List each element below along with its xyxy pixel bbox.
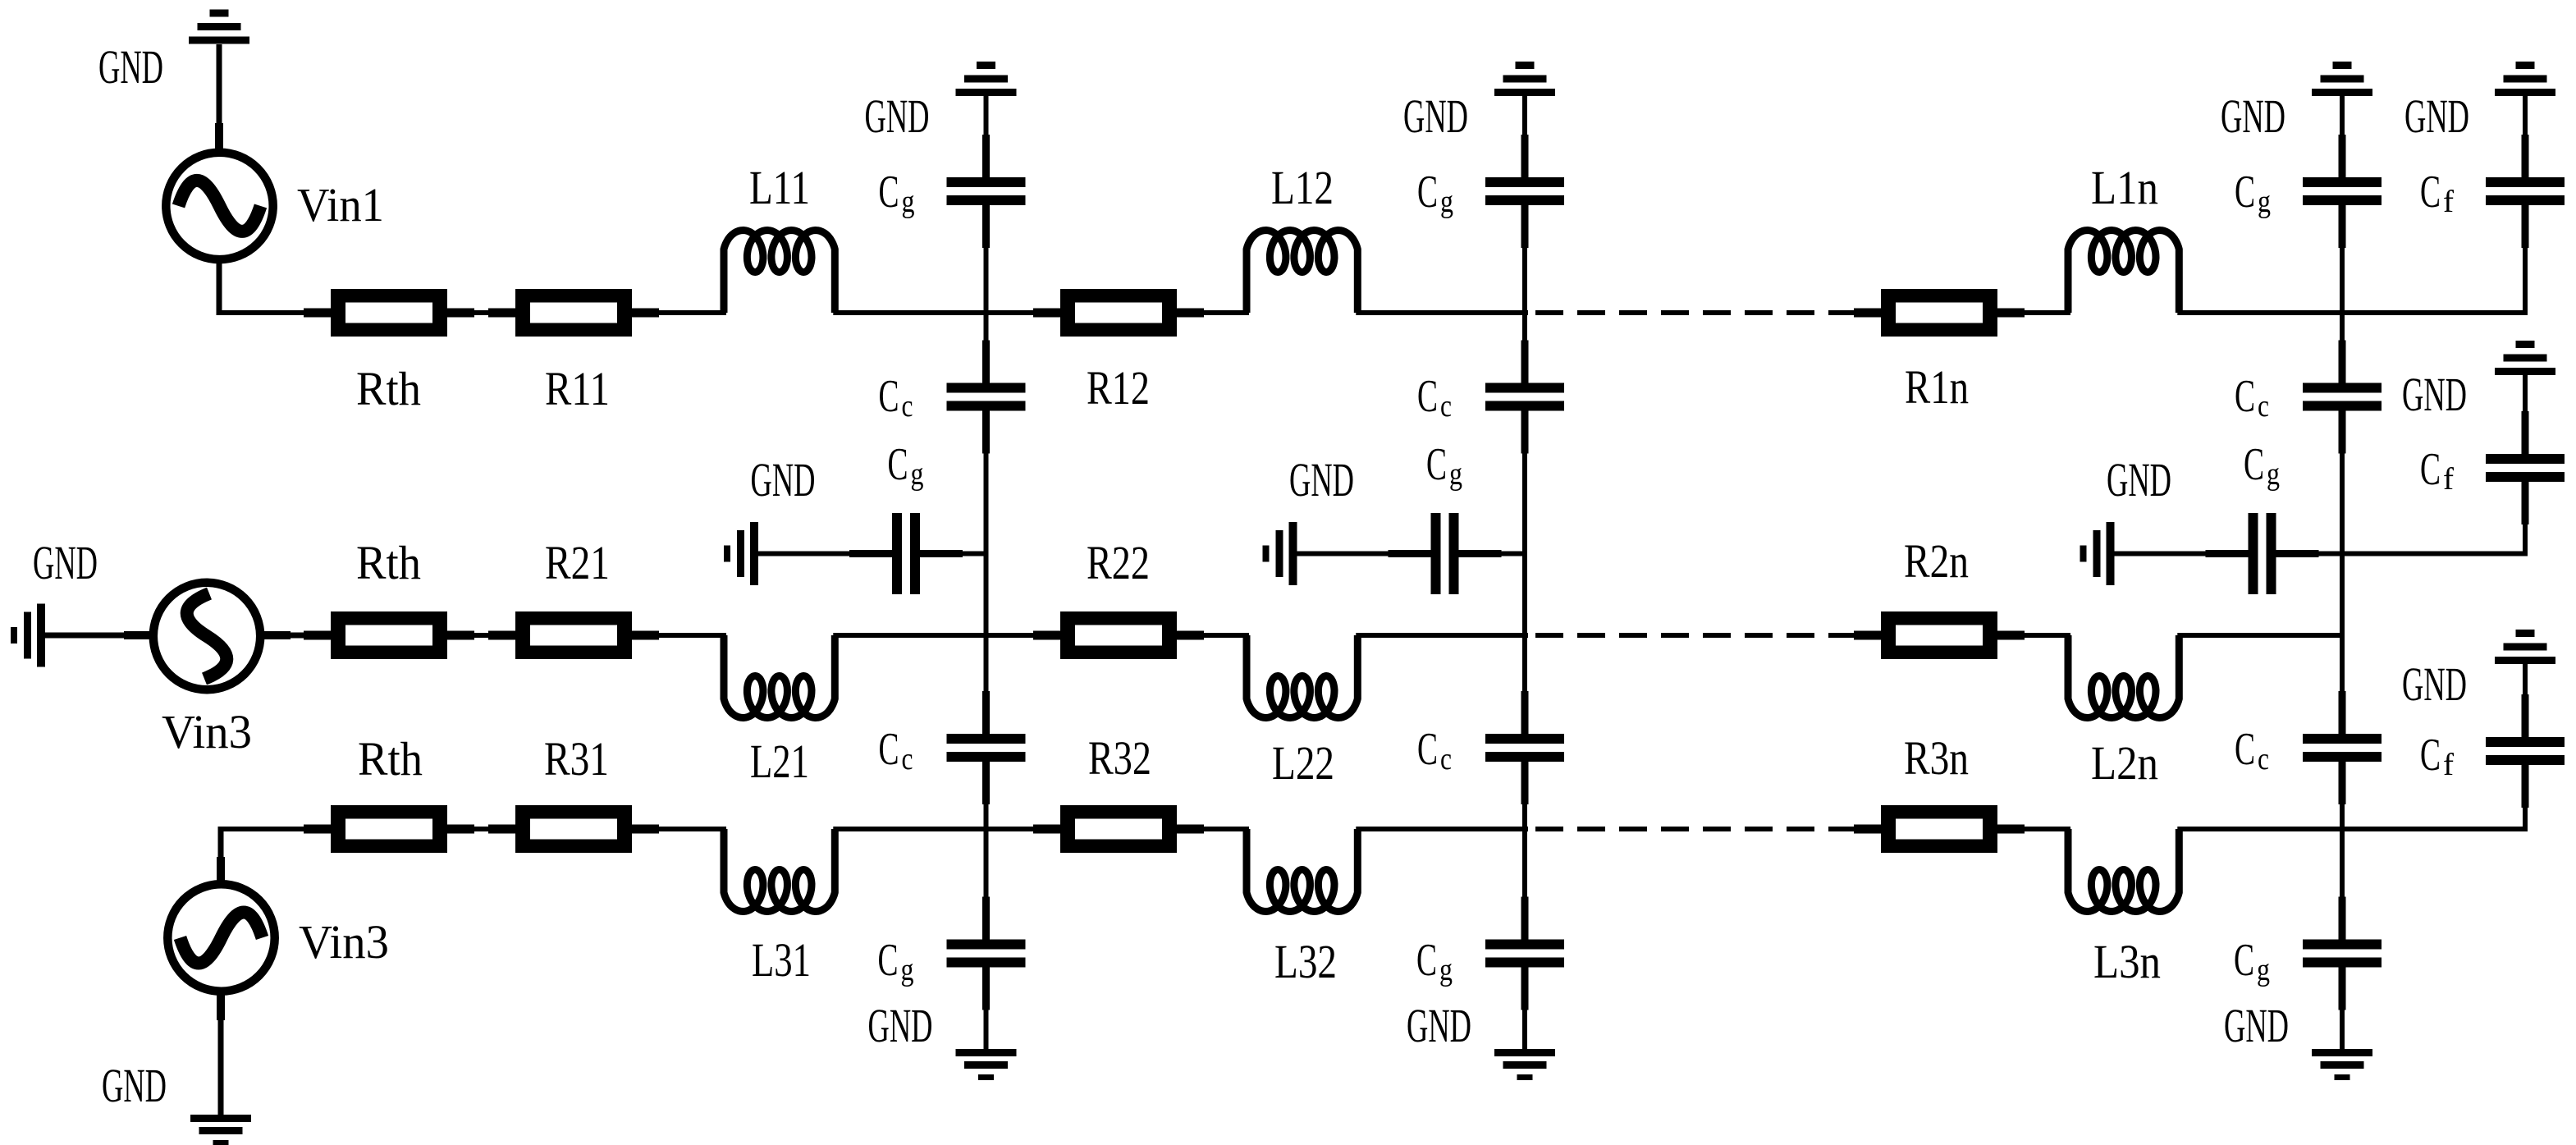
svg-text:g: g	[2258, 185, 2271, 219]
wire col1 branch to column	[920, 552, 986, 556]
svg-text:Vin3: Vin3	[299, 915, 389, 969]
wire col1 Cc lower to row3	[984, 762, 989, 829]
label R1n	[1905, 360, 1969, 414]
svg-text:L22: L22	[1272, 736, 1334, 790]
svg-text:R11: R11	[545, 362, 610, 415]
svg-text:Rth: Rth	[358, 732, 423, 785]
ground GND col2 bottom	[1494, 1049, 1555, 1080]
svg-text:L32: L32	[1274, 935, 1337, 988]
label Cf colD top	[2420, 167, 2454, 219]
resistor R1n	[1854, 289, 2025, 337]
wire col2 row3 to Cg bottom	[1522, 829, 1527, 940]
svg-text:L21: L21	[750, 735, 809, 788]
svg-text:C: C	[879, 167, 899, 218]
label Cg col1 top	[879, 167, 915, 219]
label Cg coln bottom	[2234, 935, 2270, 987]
ground GND col1 branch	[724, 522, 758, 585]
label Cc coln lower	[2235, 724, 2269, 776]
svg-text:GND: GND	[33, 536, 98, 589]
ground GND colD middle	[2495, 341, 2555, 375]
svg-text:R12: R12	[1087, 361, 1150, 414]
wire colD Cf top to row1	[2523, 248, 2528, 313]
wire row2 L2n to colC	[2177, 633, 2345, 638]
wire col1 top stem	[982, 96, 990, 179]
wire colD lower stem	[2522, 663, 2529, 739]
ground GND row2 far-left	[11, 604, 45, 667]
ground GND colD top	[2495, 62, 2555, 96]
resistor Rth row3	[304, 805, 474, 853]
svg-text:f: f	[2443, 748, 2454, 782]
resistor R32	[1033, 805, 1204, 853]
wire col1 row1 to Cc	[984, 313, 989, 383]
label R32	[1088, 731, 1151, 785]
svg-text:R22: R22	[1087, 536, 1150, 589]
svg-text:g: g	[1440, 185, 1453, 219]
label GND row2 far-left	[33, 536, 98, 589]
capacitor Cg col2 branch	[1389, 513, 1502, 594]
ground GND col1 bottom	[956, 1049, 1017, 1080]
label R11	[545, 362, 610, 415]
svg-text:GND: GND	[868, 999, 933, 1052]
label L1n	[2091, 161, 2158, 214]
wire coln row3 to Cg bottom	[2340, 829, 2345, 940]
capacitor Cg col1 top	[947, 135, 1026, 248]
wire row3 Rth to R31	[474, 827, 491, 831]
wire row1 R12 to L12	[1204, 310, 1249, 315]
capacitor Cg col2 bottom	[1485, 897, 1564, 1010]
label R31	[544, 732, 609, 785]
resistor Rth row1	[304, 289, 474, 337]
wire row3 R32 to L32	[1204, 827, 1249, 831]
capacitor Cc col2 upper	[1485, 341, 1564, 454]
capacitor Cc col1 upper	[947, 341, 1026, 454]
label GND col2 branch	[1289, 453, 1354, 506]
label GND col1 branch	[751, 453, 816, 506]
label Cg col1 bottom	[878, 935, 914, 987]
wire row2 L21 to R22	[833, 633, 1036, 638]
ground GND top-left	[189, 10, 249, 44]
label Cc col2 upper	[1417, 371, 1452, 424]
svg-text:c: c	[2258, 742, 2269, 776]
capacitor Cg col1 branch	[849, 513, 963, 594]
label GND col1 top	[865, 89, 930, 143]
capacitor Cg coln branch	[2206, 513, 2319, 594]
svg-text:R31: R31	[544, 732, 609, 785]
svg-text:g: g	[1449, 457, 1462, 492]
svg-text:Vin1: Vin1	[297, 178, 384, 231]
svg-text:C: C	[1417, 371, 1438, 422]
wire row3 corner down to Vin3	[217, 827, 225, 882]
capacitor Cf colD lower	[2486, 694, 2565, 808]
wire row2 R21 to L21	[659, 633, 726, 638]
svg-text:R32: R32	[1088, 731, 1151, 785]
wire colD middle stem	[2522, 374, 2529, 456]
svg-text:GND: GND	[751, 453, 816, 506]
label GND coln top	[2221, 89, 2285, 143]
svg-text:f: f	[2443, 462, 2454, 497]
label L22	[1272, 736, 1334, 790]
wire row3 L31 to R32	[833, 827, 1036, 831]
svg-text:c: c	[902, 742, 913, 776]
svg-text:GND: GND	[2224, 999, 2289, 1052]
label L32	[1274, 935, 1337, 988]
label GND col2 bottom	[1407, 999, 1471, 1052]
label Cg col2 top	[1417, 167, 1453, 219]
wire row1 dashed segment	[1535, 310, 1850, 315]
svg-text:Rth: Rth	[356, 536, 421, 589]
label Rth row2	[356, 536, 421, 589]
wire col1 Cc to row2	[984, 410, 989, 635]
wire col2 row1 to Cc	[1522, 313, 1527, 383]
wire row1 dash to R1n	[1850, 310, 1856, 315]
inductor L2n	[2068, 635, 2179, 718]
wire row2 Vin3 to Rth	[261, 631, 306, 639]
label R12	[1087, 361, 1150, 414]
wire row2 dash to R2n	[1850, 633, 1856, 638]
wire col1 branch	[758, 552, 892, 556]
label Cf colD middle	[2420, 444, 2454, 497]
voltage source Vin3 middle	[153, 583, 260, 689]
svg-text:R1n: R1n	[1905, 360, 1969, 414]
capacitor Cc col2 lower	[1485, 691, 1564, 804]
inductor L22	[1247, 635, 1357, 718]
wire row2 GND to Vin3	[45, 631, 152, 639]
svg-text:g: g	[2267, 457, 2280, 492]
label Cc col1 upper	[879, 371, 913, 424]
capacitor Cf colD middle	[2486, 411, 2565, 524]
svg-text:C: C	[1426, 439, 1447, 490]
svg-text:R21: R21	[545, 536, 610, 589]
svg-text:c: c	[1440, 742, 1452, 776]
ground GND coln top	[2312, 62, 2372, 96]
label GND col2 top	[1403, 89, 1468, 143]
wire col2 Cg bottom to ground	[1522, 967, 1527, 1051]
capacitor Cg col1 bottom	[947, 897, 1026, 1010]
wire col2 Cc lower to row3	[1522, 762, 1527, 829]
wire coln top stem	[2339, 96, 2346, 179]
svg-text:C: C	[2235, 167, 2255, 218]
label Vin1	[297, 178, 384, 231]
resistor R31	[488, 805, 659, 853]
ground GND bottom-left	[190, 1115, 251, 1145]
label R21	[545, 536, 610, 589]
svg-text:C: C	[879, 724, 899, 775]
svg-text:g: g	[911, 457, 924, 492]
svg-text:GND: GND	[2221, 89, 2285, 143]
capacitor Cg col2 top	[1485, 135, 1564, 248]
wire colD Cf middle to branch	[2523, 524, 2528, 554]
svg-text:C: C	[2234, 935, 2254, 986]
svg-text:C: C	[1416, 935, 1437, 986]
wire col2 Cc to row2	[1522, 410, 1527, 635]
resistor R22	[1033, 611, 1204, 659]
resistor R3n	[1854, 805, 2025, 853]
label Cc coln upper	[2235, 371, 2269, 424]
label L11	[749, 161, 810, 214]
svg-text:C: C	[2420, 444, 2441, 495]
wire col1 Cg bottom to ground	[984, 967, 989, 1051]
label L3n	[2093, 935, 2161, 988]
svg-text:g: g	[2257, 953, 2270, 987]
label GND coln branch	[2107, 453, 2171, 506]
svg-text:C: C	[878, 935, 899, 986]
wire coln branch	[2115, 552, 2249, 556]
svg-text:L11: L11	[749, 161, 810, 214]
label GND col1 bottom	[868, 999, 933, 1052]
svg-text:GND: GND	[1407, 999, 1471, 1052]
svg-text:GND: GND	[1289, 453, 1354, 506]
svg-text:c: c	[2258, 389, 2269, 424]
label Cc col1 lower	[879, 724, 913, 776]
wire row3 R31 to L31	[659, 827, 726, 831]
label Vin3 bottom	[299, 915, 389, 969]
svg-text:GND: GND	[102, 1059, 167, 1112]
svg-text:R3n: R3n	[1904, 731, 1969, 785]
wire col2 branch to column	[1459, 552, 1526, 556]
svg-text:L1n: L1n	[2091, 161, 2158, 214]
label Cg coln branch	[2244, 439, 2280, 492]
wire row1 R1n to L1n	[2025, 310, 2070, 315]
inductor L21	[724, 635, 835, 718]
svg-text:L2n: L2n	[2091, 736, 2158, 790]
wire col1 row3 to Cg bottom	[984, 829, 989, 940]
inductor L31	[724, 829, 835, 912]
ground GND coln branch	[2080, 522, 2115, 585]
wire row3 dash to R3n	[1850, 827, 1856, 831]
wire row1 L12 to colB	[1356, 310, 1528, 315]
wire Vin3 bottom to ground	[217, 993, 225, 1117]
label L12	[1271, 161, 1334, 214]
svg-text:f: f	[2443, 185, 2454, 219]
capacitor Cg coln top	[2303, 135, 2382, 248]
wire row2 R22 to L22	[1204, 633, 1249, 638]
wire row2 R2n to L2n	[2025, 633, 2070, 638]
label L21	[750, 735, 809, 788]
wire row3 dashed segment	[1535, 827, 1850, 831]
wire row3 L32 to colB	[1356, 827, 1528, 831]
svg-text:C: C	[888, 439, 908, 490]
label R22	[1087, 536, 1150, 589]
svg-text:C: C	[1417, 724, 1438, 775]
wire row1 L11 to R12	[833, 310, 1036, 315]
ground GND coln bottom	[2312, 1049, 2372, 1080]
label GND colD middle	[2402, 368, 2467, 421]
label Cg col2 branch	[1426, 439, 1462, 492]
svg-text:g: g	[1439, 953, 1453, 987]
svg-text:C: C	[2235, 371, 2255, 422]
wire row2 Rth to R21	[474, 633, 491, 638]
voltage source Vin1	[166, 153, 272, 259]
voltage source Vin3 bottom	[167, 884, 274, 991]
label Cc col2 lower	[1417, 724, 1452, 776]
label L2n	[2091, 736, 2158, 790]
label GND top-left	[98, 40, 163, 94]
label GND coln bottom	[2224, 999, 2289, 1052]
svg-text:GND: GND	[1403, 89, 1468, 143]
resistor R21	[488, 611, 659, 659]
wire col2 branch	[1297, 552, 1431, 556]
label GND colD lower	[2402, 657, 2467, 711]
svg-text:Rth: Rth	[356, 362, 421, 415]
svg-text:C: C	[2235, 724, 2255, 775]
resistor Rth row2	[304, 611, 474, 659]
label L31	[752, 933, 811, 987]
wire col2 top stem	[1521, 96, 1529, 179]
svg-text:R2n: R2n	[1904, 534, 1969, 588]
wire row2 L22 to colB	[1356, 633, 1528, 638]
label Cg col2 bottom	[1416, 935, 1453, 987]
wire row3 R3n to L3n	[2025, 827, 2070, 831]
wire Vin1 top stem	[215, 44, 223, 151]
wire coln Cg bottom to ground	[2340, 967, 2345, 1051]
label R2n	[1904, 534, 1969, 588]
capacitor Cf colD top	[2486, 135, 2565, 248]
wire coln Cc lower to row3	[2340, 762, 2345, 829]
wire col2 row2 to Cc lower	[1522, 635, 1527, 734]
svg-text:C: C	[879, 371, 899, 422]
wire coln Cc to row2	[2340, 410, 2345, 635]
svg-text:C: C	[1417, 167, 1438, 218]
svg-text:GND: GND	[2402, 657, 2467, 711]
svg-text:GND: GND	[2404, 89, 2469, 143]
label Rth row1	[356, 362, 421, 415]
svg-text:L31: L31	[752, 933, 811, 987]
label GND colD top	[2404, 89, 2469, 143]
wire colD top stem	[2522, 96, 2529, 179]
wire row1 L1n to colD	[2177, 310, 2528, 315]
wire Vin1 to row1 corner	[217, 261, 306, 315]
wire row1 Rth to R11	[474, 310, 491, 315]
wire col2 Cg to row1	[1522, 248, 1527, 313]
label Vin3 middle	[162, 705, 252, 758]
svg-text:c: c	[1440, 389, 1452, 424]
wire coln row1 to Cc	[2340, 313, 2345, 383]
svg-text:C: C	[2420, 730, 2441, 781]
wire coln Cg to row1	[2340, 248, 2345, 313]
capacitor Cc coln lower	[2303, 691, 2382, 804]
svg-text:g: g	[902, 185, 915, 219]
svg-text:g: g	[901, 953, 914, 987]
ground GND colD lower	[2495, 630, 2555, 664]
resistor R2n	[1854, 611, 2025, 659]
label R3n	[1904, 731, 1969, 785]
wire coln branch to column	[2276, 552, 2343, 556]
ground GND col1 top	[956, 62, 1017, 96]
svg-text:GND: GND	[2402, 368, 2467, 421]
svg-text:Vin3: Vin3	[162, 705, 252, 758]
wire col1 Cg to row1	[984, 248, 989, 313]
svg-text:GND: GND	[865, 89, 930, 143]
inductor L3n	[2068, 829, 2179, 912]
label Cg col1 branch	[888, 439, 924, 492]
svg-text:C: C	[2244, 439, 2264, 490]
svg-text:L3n: L3n	[2093, 935, 2161, 988]
label Cg coln top	[2235, 167, 2271, 219]
wire row3 L3n to colD	[2177, 827, 2528, 831]
svg-text:GND: GND	[2107, 453, 2171, 506]
wire row3 corner to Rth	[221, 827, 306, 831]
inductor L1n	[2068, 231, 2179, 314]
label Rth row3	[358, 732, 423, 785]
svg-text:L12: L12	[1271, 161, 1334, 214]
wire row2 dashed segment	[1535, 633, 1850, 638]
capacitor Cc coln upper	[2303, 341, 2382, 454]
resistor R11	[488, 289, 659, 337]
inductor L12	[1247, 231, 1357, 314]
svg-text:C: C	[2420, 167, 2441, 218]
inductor L11	[724, 231, 835, 314]
wire branch coln to colD	[2342, 552, 2528, 556]
resistor R12	[1033, 289, 1204, 337]
wire col1 row2 to Cc lower	[984, 635, 989, 734]
ground GND col2 top	[1494, 62, 1555, 96]
wire row1 R11 to L11	[659, 310, 726, 315]
label Cf colD lower	[2420, 730, 2454, 782]
capacitor Cg coln bottom	[2303, 897, 2382, 1010]
ground GND col2 branch	[1263, 522, 1297, 585]
wire colD Cf lower to row3	[2523, 807, 2528, 829]
capacitor Cc col1 lower	[947, 691, 1026, 804]
wire coln row2 to Cc lower	[2340, 635, 2345, 734]
svg-text:c: c	[902, 389, 913, 424]
inductor L32	[1247, 829, 1357, 912]
label GND bottom-left	[102, 1059, 167, 1112]
svg-text:GND: GND	[98, 40, 163, 94]
